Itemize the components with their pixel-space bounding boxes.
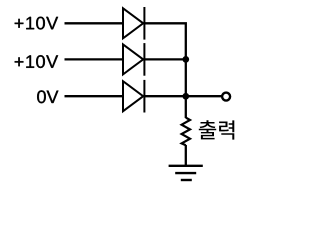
ground symbol <box>169 166 203 180</box>
wire output node down to resistor <box>185 96 187 118</box>
diode D2 <box>123 43 144 76</box>
wire D1 cathode to bus corner <box>144 23 185 59</box>
diode D1 <box>123 7 144 40</box>
wire D2 cathode to bus <box>144 58 185 60</box>
output terminal circle <box>222 93 230 101</box>
resistor R1 <box>182 118 190 146</box>
junction dot row 3 (output node) <box>182 93 189 100</box>
label 출력 (output) <box>199 120 235 139</box>
wire input 1 <box>65 22 124 24</box>
node +10V label (input 2) <box>15 55 58 68</box>
wire D3 cathode to output terminal <box>144 95 222 97</box>
diode D3 <box>123 80 144 113</box>
junction dot row 2 <box>182 56 189 63</box>
wire bus vertical segment rows 2-3 <box>185 59 187 96</box>
node 0V label (input 3) <box>37 90 58 103</box>
wire input 3 <box>65 95 124 97</box>
wire resistor to ground <box>185 145 187 166</box>
wire input 2 <box>65 58 124 60</box>
node +10V label (input 1) <box>15 17 58 30</box>
